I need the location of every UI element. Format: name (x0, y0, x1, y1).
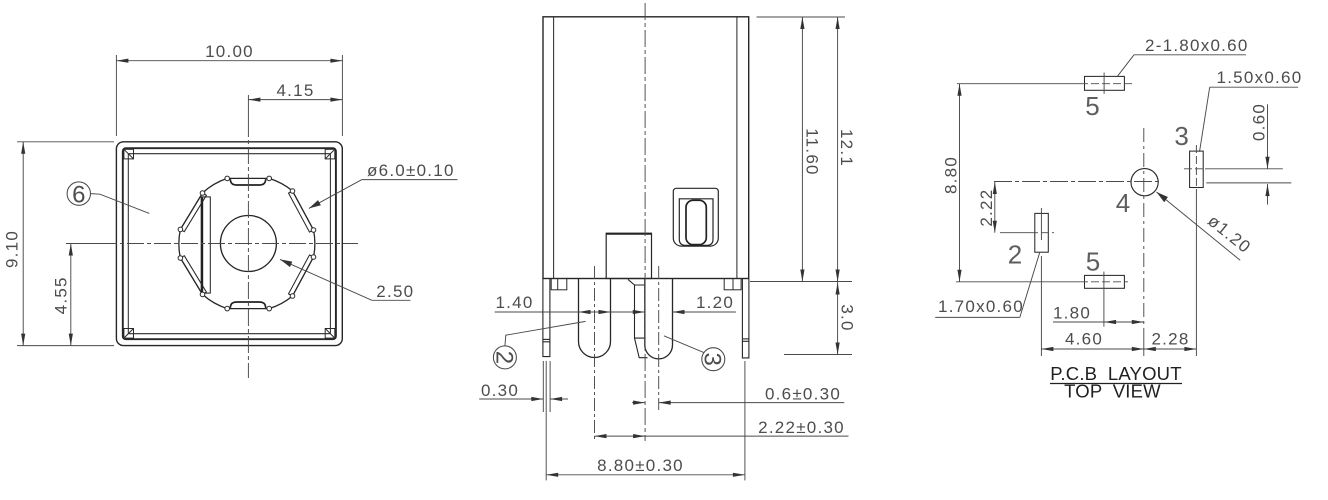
dimension 11.60 (800, 17, 821, 282)
svg-text:9.10: 9.10 (3, 230, 22, 268)
extension line leg bottom right (784, 354, 852, 356)
bushing outline octagon (179, 178, 315, 308)
main centerline (644, 3, 646, 441)
svg-text:1.80: 1.80 (1053, 304, 1091, 323)
svg-text:5: 5 (1085, 91, 1099, 121)
bushing NW bar (180, 193, 206, 232)
svg-text:ø1.20: ø1.20 (1204, 211, 1255, 257)
terminal pin 3 (645, 279, 673, 359)
transition dot 11 (178, 227, 183, 232)
transition dot 7 (267, 306, 272, 311)
FRONT VIEW GROUP (3, 42, 458, 378)
housing mid square (123, 148, 336, 339)
bushing SE bar (289, 255, 314, 296)
svg-text:3.0: 3.0 (838, 304, 857, 331)
left shield leg (543, 279, 550, 357)
svg-text:12.1: 12.1 (837, 129, 856, 167)
pin 4 vertical centerline (1143, 128, 1145, 330)
svg-text:6: 6 (72, 181, 85, 208)
pad 2 extension to 4.60 (1040, 256, 1042, 356)
center terminal box thick top (606, 233, 651, 235)
extension line body bottom right (750, 281, 852, 283)
svg-text:4: 4 (1116, 188, 1130, 218)
transition dot 8 (225, 306, 230, 311)
pad 5 bottom (1085, 275, 1125, 288)
pad 2 crosshair vertical upper (1040, 208, 1042, 240)
svg-text:5: 5 (1086, 247, 1100, 277)
center pin hole circle (220, 216, 276, 272)
transition dot 5 (311, 255, 316, 260)
svg-text:4.55: 4.55 (52, 276, 71, 314)
dimension 1.20 (633, 293, 736, 314)
dimension 0.60 (1250, 103, 1270, 205)
svg-text:2-1.80x0.60: 2-1.80x0.60 (1145, 36, 1249, 55)
transition dot 3 (290, 189, 295, 194)
label 2.50 (280, 259, 414, 301)
transition dot 2 (267, 176, 272, 181)
terminal pin 2 (579, 279, 611, 358)
pad 3 centerline horizontal (1184, 168, 1283, 170)
extension line top right (757, 16, 846, 18)
PCB LAYOUT GROUP (935, 36, 1302, 402)
contact window outer (673, 188, 718, 246)
title PCB LAYOUT (1050, 363, 1182, 384)
svg-text:4.15: 4.15 (276, 81, 314, 100)
corner mark bottom-left (124, 329, 134, 339)
dimension 8.80 pcb (942, 84, 962, 282)
dimension 2.22 (595, 418, 849, 438)
terminal pin 3 flat strip (628, 279, 648, 357)
bushing bottom groove (230, 302, 265, 308)
label 1.50x0.60 (1200, 68, 1303, 152)
dimension 4.55 (52, 244, 73, 346)
vertical centerline (247, 95, 249, 378)
pin 3 centerline (658, 266, 660, 410)
svg-text:10.00: 10.00 (205, 42, 254, 61)
dimension 1.80 (1053, 304, 1144, 325)
bushing NE bar (289, 191, 314, 232)
svg-text:4.60: 4.60 (1065, 330, 1103, 349)
svg-text:8.80: 8.80 (942, 156, 961, 194)
svg-text:1.20: 1.20 (696, 293, 734, 312)
left mount tab (551, 279, 567, 290)
dimension 10.00 (116, 42, 342, 136)
pad 5 top centerline / 8.80 top extension (957, 83, 1133, 85)
pad 3 (1190, 151, 1204, 187)
svg-text:3: 3 (1174, 121, 1188, 151)
dimension 4.15 (248, 81, 342, 102)
transition dot 12 (200, 191, 205, 196)
transition dot 6 (290, 294, 295, 299)
bushing top groove (230, 179, 265, 185)
label 1.70x0.60 (935, 252, 1040, 317)
svg-text:1.50x0.60: 1.50x0.60 (1217, 68, 1303, 87)
svg-text:11.60: 11.60 (803, 128, 822, 176)
balloon 6 leader (91, 194, 150, 214)
pad 5 bottom centerline / 8.80 bottom extension (956, 281, 1128, 283)
body right wall line (736, 17, 738, 279)
dimension 4.60 (1041, 330, 1143, 352)
pin 4 hole (1131, 169, 1158, 196)
housing outer square (116, 142, 342, 346)
dimension 12.1 (836, 17, 857, 355)
body left wall line (553, 17, 555, 279)
svg-text:2.50: 2.50 (376, 282, 414, 301)
dimension 0.30 (479, 361, 568, 412)
transition dot 4 (311, 228, 316, 233)
svg-text:2.28: 2.28 (1151, 330, 1189, 349)
svg-text:TOP VIEW: TOP VIEW (1064, 381, 1161, 402)
dimension 3.0 (836, 270, 857, 332)
bushing SW bar (180, 256, 206, 295)
transition dot 1 (225, 176, 230, 181)
label 2-1.80x0.60 (1117, 36, 1248, 76)
svg-text:0.60: 0.60 (1250, 103, 1269, 141)
pin 2 centerline (594, 266, 596, 441)
svg-text:8.80±0.30: 8.80±0.30 (597, 456, 684, 475)
pin 4 row centerline (994, 181, 1160, 183)
bushing key thick edge (201, 197, 203, 292)
svg-text:2.22: 2.22 (977, 189, 996, 227)
dimension 2.22 pcb (977, 182, 997, 233)
svg-text:1.70x0.60: 1.70x0.60 (938, 297, 1024, 316)
dimension 1.40 (495, 293, 645, 314)
label dia 1.20 leader (1157, 192, 1255, 260)
dimension 9.10 (3, 142, 115, 346)
contact window mid (679, 199, 713, 246)
corner mark top-right (325, 149, 335, 159)
svg-text:ø6.0±0.10: ø6.0±0.10 (367, 161, 455, 180)
horizontal centerline (66, 243, 358, 245)
svg-text:2: 2 (490, 351, 517, 364)
pad 2 centerline horizontal / 2.22 bottom extension (1000, 232, 1054, 234)
svg-text:0.6±0.30: 0.6±0.30 (765, 384, 841, 403)
dimension 2.28 (1144, 330, 1197, 352)
corner mark bottom-right (325, 329, 335, 339)
pin 4 row right extension (1206, 182, 1291, 184)
housing inner square (128, 154, 330, 334)
balloon 2 (490, 346, 517, 369)
pad 5 bottom crosshair vertical (1103, 272, 1105, 327)
contact window inner tube (686, 200, 706, 244)
balloon 3 (699, 348, 726, 371)
svg-text:2: 2 (1008, 240, 1022, 270)
right shield leg (742, 279, 749, 358)
balloon 2 leader (505, 321, 586, 346)
pad 2 (1035, 213, 1049, 252)
pad 5 top (1085, 76, 1125, 90)
svg-text:2.22±0.30: 2.22±0.30 (758, 418, 845, 437)
balloon 6 (67, 181, 90, 208)
pin 4 vertical extension to 4.60 (1143, 330, 1145, 356)
pad 5 top crosshair vertical (1103, 73, 1105, 94)
transition dot 10 (178, 256, 183, 261)
balloon 3 leader (664, 336, 704, 353)
pad 3 extension to 2.28 (1195, 195, 1197, 356)
bushing key rectangle (201, 197, 210, 293)
dimension 0.6 (632, 384, 844, 404)
svg-text:3: 3 (699, 353, 726, 366)
body outline (543, 17, 749, 279)
label dia 6.0 (309, 161, 458, 208)
transition dot 9 (200, 292, 205, 297)
corner mark top-left (124, 149, 134, 159)
right mount tab (724, 279, 741, 290)
SIDE VIEW GROUP (479, 3, 856, 480)
dimension 8.80 (546, 361, 745, 480)
svg-text:1.40: 1.40 (495, 293, 533, 312)
center terminal box (606, 233, 651, 278)
pad 3 crosshair vertical (1195, 145, 1197, 195)
svg-text:0.30: 0.30 (481, 381, 519, 400)
